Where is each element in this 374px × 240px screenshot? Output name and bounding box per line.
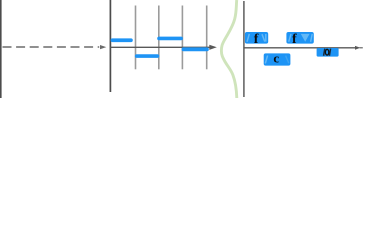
- signal bar 1 (high): [111, 38, 133, 42]
- gridline t2: [158, 6, 160, 70]
- dashed input arrow: [3, 45, 107, 49]
- output axis arrow: [244, 46, 363, 50]
- label box c: [264, 51, 291, 66]
- gridline t1: [135, 6, 137, 70]
- svg-text:f: f: [292, 32, 297, 47]
- axis vertical line left (tall): [109, 0, 111, 92]
- left edge vertical line: [0, 0, 2, 98]
- label box o: [317, 48, 339, 57]
- label box f1: [245, 32, 268, 47]
- gaussian filter curve (green): [221, 0, 236, 98]
- output axis vertical line (tall right): [243, 1, 245, 97]
- signal bar 3 (high): [157, 37, 183, 41]
- signal bar 2 (low): [135, 54, 159, 58]
- svg-text:f: f: [254, 32, 259, 47]
- gridline t4: [206, 6, 208, 70]
- panel time axis arrow: [110, 45, 216, 50]
- label box f2: [286, 32, 313, 47]
- svg-text:c: c: [273, 51, 279, 66]
- signal bar 4 (mid): [182, 47, 209, 51]
- gridline t3: [181, 6, 183, 70]
